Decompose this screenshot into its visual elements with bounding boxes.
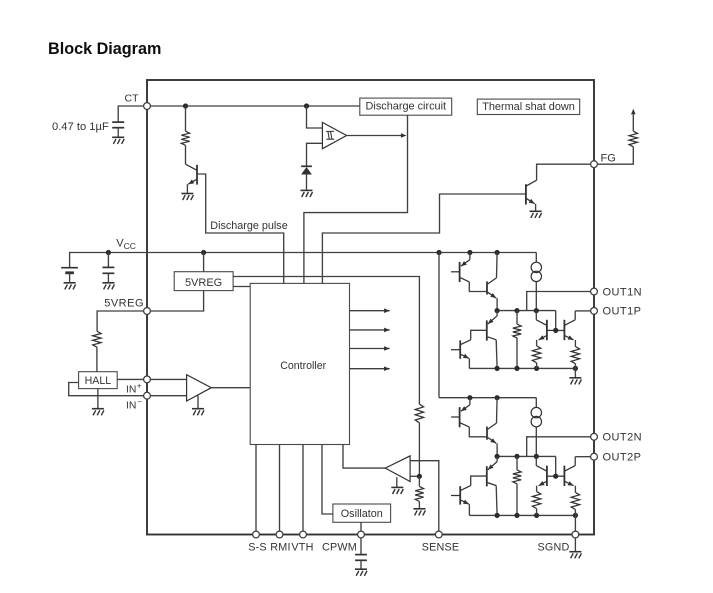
transistor Q13 NPN [536, 456, 555, 491]
capacitor C4 CPWM [355, 535, 367, 569]
node bus junction c1 [534, 308, 539, 313]
node VCC cap junction [106, 250, 111, 255]
arrow up [631, 109, 636, 115]
wire comparator minus input [307, 143, 323, 165]
wire hall to IN- [69, 383, 147, 396]
node base junction 1 [553, 311, 564, 333]
wire controller to S-S [255, 445, 257, 535]
label SENSE [422, 541, 460, 553]
wire 5VREG to sense divider [233, 277, 419, 405]
wire stage1 ground lead [574, 368, 576, 377]
node rail junction b2 [495, 395, 500, 400]
transistor Q11 PNP [461, 456, 498, 515]
wire out2 lower rail [469, 514, 575, 516]
svg-text:CT: CT [125, 93, 140, 105]
ground [181, 194, 193, 201]
wire vcc-out feed [438, 252, 440, 254]
capacitor C1 0.47-1uF [112, 122, 124, 137]
ground [530, 211, 542, 218]
node rail junction a2 [467, 395, 472, 400]
wire CT cap lead [118, 106, 147, 122]
transistor Q12 NPN [451, 486, 469, 515]
label OUT1P [603, 306, 642, 318]
ground [192, 409, 204, 416]
ground [569, 552, 581, 559]
box Discharge circuit [360, 98, 452, 115]
transistor Q9 PNP [451, 398, 487, 437]
label Discharge pulse [210, 220, 287, 232]
transistor Q6 NPN [451, 340, 469, 368]
pin IN- [144, 392, 151, 399]
pin IN+ [144, 376, 151, 383]
svg-text:SGND: SGND [538, 541, 570, 553]
wire controller to A2 [343, 445, 385, 469]
label CPWM [322, 541, 357, 553]
node lower rail b2 [514, 513, 519, 518]
svg-text:OUT1P: OUT1P [603, 306, 642, 318]
node bus junction b2 [514, 454, 519, 459]
svg-text:Thermal shat down: Thermal shat down [482, 101, 575, 113]
label SGND [538, 541, 570, 553]
wire controller to oscillator [322, 445, 333, 515]
svg-text:RMI: RMI [270, 541, 290, 553]
label 5VREG [104, 298, 144, 310]
wire discharge circuit to controller [304, 115, 408, 283]
svg-text:0.47 to 1µF: 0.47 to 1µF [52, 121, 109, 133]
wire hall to IN+ [117, 378, 147, 380]
svg-text:SENSE: SENSE [422, 541, 460, 553]
node base junction 2 [553, 456, 564, 478]
wire A2 ground lead [396, 477, 398, 487]
svg-text:CC: CC [124, 241, 136, 251]
svg-text:CPWM: CPWM [322, 541, 357, 553]
transistor Q10 NPN [487, 398, 497, 457]
wire control arrow 2 [350, 328, 390, 333]
node CT resistor junction [183, 103, 188, 108]
wire FG external [594, 147, 633, 164]
resistor R3 hall bias [93, 331, 101, 372]
wire 5VREG box to pin [147, 291, 204, 311]
label OUT2P [603, 452, 642, 464]
pin OUT1P [591, 308, 598, 315]
title [48, 40, 161, 58]
svg-text:Discharge circuit: Discharge circuit [366, 100, 447, 112]
wire 5VREG to controller [233, 286, 250, 288]
label S-S [248, 541, 267, 553]
wire control arrow 1 [350, 308, 390, 313]
node lower rail d1 [573, 366, 578, 371]
wire hall ground lead [97, 389, 99, 409]
svg-text:HALL: HALL [85, 375, 112, 387]
wire control arrow 4 [350, 366, 390, 371]
label OUT2N [603, 432, 643, 444]
node lower rail b1 [514, 366, 519, 371]
ground [391, 487, 403, 494]
box Thermal shat down [477, 99, 579, 114]
wire out2 bus [497, 455, 556, 457]
box Osillaton [333, 504, 391, 522]
node rail junction a1 [467, 250, 472, 255]
ground [102, 283, 114, 290]
wire Q2 base net [322, 194, 526, 283]
svg-text:5VREG: 5VREG [104, 298, 144, 310]
node CT comparator junction [304, 103, 309, 108]
wire VCC left [70, 253, 147, 268]
wire out2 rail feed [438, 253, 440, 398]
transistor Q7 NPN [536, 311, 555, 346]
pin S-S [253, 531, 260, 538]
resistor R2a [513, 456, 521, 515]
wire OUT1N [527, 292, 594, 311]
label OUT1N [603, 286, 643, 298]
wire OUT2N [527, 437, 594, 457]
capacitor C2 electrolytic [61, 268, 78, 283]
wire IN- to A1 [147, 395, 187, 397]
wire A1 output [211, 387, 250, 389]
svg-text:Controller: Controller [280, 360, 326, 372]
resistor R5 [415, 476, 423, 508]
wire IN+ to A1 [147, 378, 187, 380]
pin RMI [276, 531, 283, 538]
pin SENSE [435, 531, 442, 538]
node bus junction b1 [514, 308, 519, 313]
pin SGND [572, 531, 579, 538]
pin OUT2N [591, 433, 598, 440]
label IN- [126, 398, 142, 412]
node VCC 5VREG junction [201, 250, 206, 255]
wire A2 minus input [410, 475, 419, 477]
op-amp A2 [385, 456, 410, 482]
node lower rail c2 [534, 513, 539, 518]
wire A2 to SENSE [410, 461, 439, 535]
box HALL [79, 372, 118, 389]
wire comparator output [347, 133, 407, 138]
ground [569, 378, 581, 385]
wire A1 ground lead [197, 395, 199, 408]
transistor Q8 NPN [564, 311, 591, 347]
node bus junction a2 [495, 454, 500, 459]
resistor R2b [532, 492, 540, 516]
wire stage2 to SGND [574, 515, 576, 534]
svg-text:Osillaton: Osillaton [341, 508, 383, 520]
wire SGND ground lead [574, 538, 576, 551]
wire oscillator to CPWM [360, 522, 362, 534]
label IN+ [126, 382, 142, 396]
node lower rail a2 [495, 513, 500, 518]
transistor Q2 FG [526, 180, 537, 211]
pin CPWM [358, 531, 365, 538]
svg-text:Discharge pulse: Discharge pulse [210, 220, 287, 232]
node bus junction a1 [495, 308, 500, 313]
resistor R4 [415, 404, 423, 476]
wire controller to RMI [279, 445, 281, 535]
svg-text:−: − [137, 398, 142, 407]
node lower rail d2 [573, 513, 578, 518]
wire out1 lower rail [469, 367, 575, 369]
node lower rail c1 [534, 366, 539, 371]
resistor R1b [532, 346, 540, 369]
transistor Q1 discharge [186, 164, 198, 193]
wire discharge pulse net [197, 174, 284, 283]
svg-text:IN: IN [126, 384, 136, 395]
box 5VREG [174, 272, 233, 291]
transistor Q14 NPN [564, 457, 591, 493]
wire VCC to 5VREG box [203, 253, 205, 272]
wire VCC rail [147, 252, 536, 254]
pin CT [144, 103, 151, 110]
ground [413, 509, 425, 516]
ground [301, 190, 313, 197]
transistor Q3 PNP [451, 253, 487, 292]
svg-text:S-S: S-S [248, 541, 267, 553]
svg-text:Block Diagram: Block Diagram [48, 40, 161, 58]
resistor R1 [181, 106, 189, 164]
node lower rail a1 [495, 366, 500, 371]
diode D1 [301, 166, 312, 190]
ground [64, 283, 76, 290]
wire out1 bus [497, 310, 556, 312]
ground [92, 409, 104, 416]
IC outline [147, 80, 594, 535]
svg-text:OUT2N: OUT2N [603, 432, 643, 444]
op-amp A1 [187, 375, 212, 401]
node VCC out2-feed junction [436, 250, 441, 255]
svg-text:IN: IN [126, 400, 136, 411]
label C1 value [52, 121, 109, 133]
wire controller to VTH [302, 445, 304, 535]
ground [355, 569, 367, 576]
wire 5VREG to hall [97, 311, 147, 331]
wire out2 rail [439, 397, 536, 399]
label CT [125, 93, 140, 105]
transistor Q5 PNP [461, 311, 498, 369]
label RMI [270, 541, 290, 553]
wire control arrow 3 [350, 346, 390, 351]
svg-text:+: + [137, 382, 142, 391]
svg-text:FG: FG [601, 152, 616, 164]
wire comparator plus input [307, 106, 323, 128]
label FG [601, 152, 616, 164]
resistor R2c [571, 492, 579, 515]
label VCC [116, 238, 136, 251]
svg-text:VTH: VTH [291, 541, 313, 553]
comparator U2 [322, 122, 346, 148]
pin OUT1N [591, 288, 598, 295]
svg-text:OUT1N: OUT1N [603, 286, 643, 298]
svg-text:5VREG: 5VREG [185, 277, 222, 289]
current source CS1 [531, 253, 541, 311]
box Controller [250, 283, 349, 444]
resistor R1c [571, 347, 579, 369]
node divider tap [417, 474, 422, 479]
capacitor C3 [103, 253, 115, 283]
transistor Q4 NPN [487, 253, 497, 311]
pin 5VREG [144, 308, 151, 315]
label VTH [291, 541, 313, 553]
pin FG [591, 161, 598, 168]
wire FG collector [537, 164, 594, 180]
wire CT net [147, 105, 360, 107]
current source CS2 [531, 398, 541, 457]
pin OUT2P [591, 453, 598, 460]
ground [112, 137, 124, 144]
svg-text:OUT2P: OUT2P [603, 452, 642, 464]
node rail junction b1 [495, 250, 500, 255]
resistor R1a [513, 311, 521, 369]
resistor R2 FG pull-up [629, 115, 637, 147]
node bus junction c2 [534, 454, 539, 459]
pin VTH [300, 531, 307, 538]
